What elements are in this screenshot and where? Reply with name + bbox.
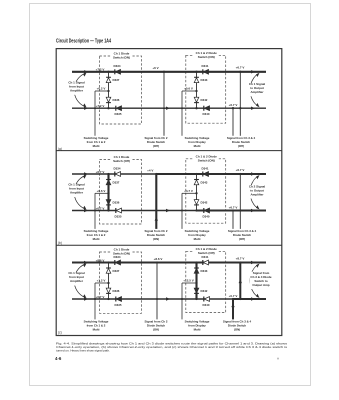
wire: clamp branch Ch 1 &amp; 2 switch (a) xyxy=(196,72,198,108)
svg-text:D336: D336 xyxy=(113,200,120,204)
wire: Ch 3 &amp; 4 diode switch feed (a) xyxy=(232,108,234,136)
diode D343 (a) xyxy=(194,77,208,82)
svg-text:+6 V: +6 V xyxy=(152,66,158,70)
Ch 1 diode switch dashed box (c) xyxy=(100,252,142,313)
diode D342 (c) xyxy=(194,288,208,293)
svg-text:Switch (ON): Switch (ON) xyxy=(198,55,215,59)
box title Ch 1 &amp; 2 Diode Switch (a) xyxy=(194,51,219,59)
label: Switching Voltage from Ch 1 &amp; 2 Multi (a) xyxy=(84,136,109,148)
svg-text:D335: D335 xyxy=(115,214,122,218)
label: Ch 1 Signal from Input Amplifier (a) xyxy=(65,80,88,94)
wire: clamp branch Ch 1 switch (a) xyxy=(108,72,110,108)
svg-text:+4 V: +4 V xyxy=(147,168,153,172)
output signal arc (c) xyxy=(250,264,259,299)
voltage label +0.7 V (b) xyxy=(96,206,105,210)
wire: Ch 3 &amp; 4 diode switch feed (c) xyxy=(232,299,234,319)
diode D341 (a) xyxy=(202,64,209,74)
wire: right bus tie (c) xyxy=(239,263,241,300)
label: Switching Voltage from Display Multi (c) xyxy=(185,320,210,332)
svg-text:D343: D343 xyxy=(201,78,208,82)
svg-text:(Off): (Off) xyxy=(238,144,244,148)
wire: bottom signal line (c) xyxy=(72,298,266,300)
svg-text:(b): (b) xyxy=(58,241,62,245)
input signal arc (a) xyxy=(74,73,86,108)
arrowhead up (b) xyxy=(155,217,158,221)
node: clamp midpoint 2 (b) xyxy=(195,192,197,194)
diode D335 (b) xyxy=(115,208,122,218)
svg-text:(ON): (ON) xyxy=(153,237,159,241)
diode D334 (a) xyxy=(114,64,121,74)
svg-text:D335: D335 xyxy=(115,303,122,307)
node: clamp midpoint 2 (c) xyxy=(195,282,197,284)
wire: right bus tie (a) xyxy=(239,72,241,136)
svg-text:+7.2 V: +7.2 V xyxy=(96,104,105,108)
header: Circuit Description — Type 1A4 xyxy=(56,39,111,45)
label: Switching Voltage from Ch 1 &amp; 2 Multi (c) xyxy=(84,320,109,332)
diode D337 (a) xyxy=(106,77,120,82)
arrowheads on signal lines (a) xyxy=(84,70,255,110)
svg-text:(ON): (ON) xyxy=(234,328,240,332)
diode D340 (b) xyxy=(203,208,210,218)
box title Ch 1 &amp; 2 Diode Switch (c) xyxy=(194,247,219,255)
wire: clamp branch Ch 1 &amp; 2 switch (c) xyxy=(195,263,197,300)
label: Signal from Ch 3 &amp; 4 Diode Switch (c) xyxy=(223,320,252,332)
svg-text:+6.7 V: +6.7 V xyxy=(229,205,238,209)
voltage label +0.6 V (a) xyxy=(184,87,193,91)
label: Switching Voltage from Ch 1 &amp; 2 Multi (b) xyxy=(84,229,109,241)
wire: display multi drive jog (b) xyxy=(182,193,197,229)
svg-text:+0.7 V: +0.7 V xyxy=(96,295,105,299)
output signal arc (a) xyxy=(250,73,259,107)
box title Ch 1 Diode Switch (c) xyxy=(111,248,133,256)
figure caption xyxy=(56,341,288,352)
diode D336 (c) xyxy=(106,288,120,293)
svg-text:D342: D342 xyxy=(201,289,208,293)
svg-text:+1.2 V: +1.2 V xyxy=(97,279,106,283)
junction dots (a) xyxy=(94,71,241,110)
wire: bottom signal line (a) xyxy=(72,107,266,109)
svg-text:D340: D340 xyxy=(203,303,210,307)
svg-text:(c): (c) xyxy=(58,331,62,335)
voltage label +1.2 V (c) xyxy=(97,279,106,283)
voltage label +12.5 V (c) xyxy=(183,279,193,283)
svg-text:D343: D343 xyxy=(201,180,208,184)
svg-text:D335: D335 xyxy=(115,112,122,116)
svg-text:+0.7 V: +0.7 V xyxy=(229,294,238,298)
svg-text:+8.6 V: +8.6 V xyxy=(154,257,163,261)
label: Signal from Ch 3 &amp; 4 Diode Switch (a) xyxy=(227,136,256,148)
svg-text:(Off): (Off) xyxy=(153,144,159,148)
diode D335 (c) xyxy=(115,297,122,307)
voltage label +6.7 V (a) xyxy=(236,66,245,70)
Ch 1 diode switch dashed box (b) xyxy=(100,160,142,225)
svg-text:Amplifier: Amplifier xyxy=(250,90,264,94)
wire: Ch 2 diode switch feed (c) xyxy=(156,263,158,320)
svg-text:(Off): (Off) xyxy=(239,237,245,241)
label: signal to output amplifier (c) xyxy=(250,271,272,289)
svg-text:(a): (a) xyxy=(58,147,62,151)
voltage label +8.7 V (c) xyxy=(236,256,245,260)
svg-text:D336: D336 xyxy=(113,289,120,293)
diode D337 (c) xyxy=(106,268,120,273)
svg-text:D343: D343 xyxy=(201,269,208,273)
svg-text:Multi: Multi xyxy=(93,328,100,332)
svg-text:D341: D341 xyxy=(202,64,209,68)
voltage label +4.7 V (b) xyxy=(184,189,193,193)
wire: Ch 3 &amp; 4 diode switch feed (b) xyxy=(232,211,234,229)
svg-text:4-6: 4-6 xyxy=(55,356,62,361)
svg-text:D337: D337 xyxy=(113,269,120,273)
input signal arc (c) xyxy=(74,263,86,298)
svg-text:Multi: Multi xyxy=(194,328,201,332)
voltage label +0.7 V (c) xyxy=(96,295,105,299)
svg-text:+6.7 V: +6.7 V xyxy=(236,66,245,70)
junction dots (b) xyxy=(94,173,241,212)
svg-text:+8.6 V: +8.6 V xyxy=(96,258,105,262)
voltage label +8.6 V (c) xyxy=(96,258,105,262)
label: Switching Voltage from Display Multi (b) xyxy=(185,229,210,241)
wire: Ch 1 &amp; 2 multi drive jog (b) xyxy=(95,193,109,229)
svg-text:Multi: Multi xyxy=(93,237,100,241)
svg-text:turned on. Heavy lines show si: turned on. Heavy lines show signal path. xyxy=(56,349,110,353)
wire: bottom signal line (b) xyxy=(72,210,266,212)
svg-text:+12.5 V: +12.5 V xyxy=(183,279,193,283)
svg-text:D336: D336 xyxy=(113,98,120,102)
diode D337 (b) xyxy=(106,180,120,185)
Ch 1 &amp; 2 diode switch dashed box (b) xyxy=(186,159,226,223)
wire: right bus tie (b) xyxy=(239,174,241,229)
svg-text:Amplifier: Amplifier xyxy=(70,88,84,92)
voltage label +0.7 V (c) xyxy=(229,294,238,298)
diode D340 (c) xyxy=(203,297,210,307)
svg-text:+0.6 V: +0.6 V xyxy=(97,189,106,193)
svg-text:D337: D337 xyxy=(113,180,120,184)
box title Ch 1 Diode Switch (a) xyxy=(111,52,133,60)
svg-text:+6.7 V: +6.7 V xyxy=(229,103,238,107)
wire: display multi drive jog (c) xyxy=(182,283,197,319)
svg-text:A: A xyxy=(277,356,279,360)
svg-text:Multi: Multi xyxy=(93,144,100,148)
svg-text:D341: D341 xyxy=(202,255,209,259)
svg-text:Circuit Description — Type 1A4: Circuit Description — Type 1A4 xyxy=(56,39,111,45)
label: Ch 1 Signal from Input Amplifier (b) xyxy=(65,183,88,197)
page edge xyxy=(30,4,311,386)
panel letter (c) xyxy=(58,331,62,335)
diode D341 (b) xyxy=(202,166,209,176)
wire: Ch 2 diode switch feed (a) xyxy=(163,72,165,136)
svg-text:Amplifier: Amplifier xyxy=(250,192,264,196)
voltage label +6.7 V (b) xyxy=(236,168,245,172)
node: clamp midpoint 1 (b) xyxy=(107,192,109,194)
figure border xyxy=(56,49,282,336)
svg-text:D340: D340 xyxy=(203,214,210,218)
panel divider 2 xyxy=(56,244,282,246)
svg-text:D340: D340 xyxy=(203,112,210,116)
wire: Ch 1 &amp; 2 multi drive jog (c) xyxy=(95,283,109,319)
wire: top signal line (c) xyxy=(72,261,266,263)
label: Switching Voltage from Display Multi (a) xyxy=(185,136,210,148)
diode D336 (b) xyxy=(106,200,120,205)
svg-text:D342: D342 xyxy=(201,98,208,102)
svg-text:Amplifier: Amplifier xyxy=(70,279,84,283)
svg-text:+0.2 V: +0.2 V xyxy=(97,87,106,91)
arrowhead up (c) xyxy=(231,304,234,308)
wire: clamp branch Ch 1 switch (c) xyxy=(108,263,110,300)
wire: top signal line (b) xyxy=(72,173,266,175)
revision mark xyxy=(277,356,279,360)
diode D342 (a) xyxy=(194,97,208,102)
svg-text:Output Amp: Output Amp xyxy=(252,283,269,287)
svg-text:+7.2 V: +7.2 V xyxy=(96,68,105,72)
svg-text:+0.7 V: +0.7 V xyxy=(96,206,105,210)
voltage label +6.7 V (b) xyxy=(229,205,238,209)
svg-text:D334: D334 xyxy=(114,64,121,68)
svg-text:Multi: Multi xyxy=(194,237,201,241)
node: clamp midpoint 2 (a) xyxy=(195,90,197,92)
panel letter (b) xyxy=(58,241,62,245)
node: clamp midpoint 1 (c) xyxy=(107,282,109,284)
svg-text:Switch (ON): Switch (ON) xyxy=(198,158,215,162)
voltage label +6.7 V (b) xyxy=(96,170,105,174)
svg-text:D334: D334 xyxy=(114,166,121,170)
voltage label +6.7 V (a) xyxy=(229,103,238,107)
voltage label +0.2 V (a) xyxy=(97,87,106,91)
wire: clamp branch Ch 1 switch (b) xyxy=(107,174,109,211)
svg-text:+4.7 V: +4.7 V xyxy=(184,189,193,193)
diode D336 (a) xyxy=(106,97,120,102)
svg-text:D334: D334 xyxy=(114,255,121,259)
svg-text:+0.6 V: +0.6 V xyxy=(184,87,193,91)
svg-text:D337: D337 xyxy=(113,78,120,82)
Ch 1 diode switch dashed box (a) xyxy=(100,56,142,124)
voltage label +6 V (a) xyxy=(152,66,158,70)
voltage label +7.2 V (a) xyxy=(96,68,105,72)
junction dots (c) xyxy=(94,261,241,300)
box title Ch 1 &amp; 2 Diode Switch (b) xyxy=(194,154,219,162)
diode D343 (b) xyxy=(194,180,208,185)
arrowhead up (c) xyxy=(239,280,242,284)
svg-text:(Off): (Off) xyxy=(153,328,159,332)
svg-text:Multi: Multi xyxy=(194,144,201,148)
diode D334 (b) xyxy=(114,166,121,176)
diode D334 (c) xyxy=(114,255,121,265)
svg-text:+8.7 V: +8.7 V xyxy=(236,256,245,260)
Ch 1 &amp; 2 diode switch dashed box (c) xyxy=(186,251,226,312)
diode D341 (c) xyxy=(202,255,209,265)
box title Ch 1 Diode Switch (b) xyxy=(111,155,133,163)
svg-text:+6.7 V: +6.7 V xyxy=(236,168,245,172)
wire: Ch 2 diode switch feed (b) xyxy=(155,174,157,229)
wire: clamp branch Ch 1 &amp; 2 switch (b) xyxy=(196,174,198,211)
diode D343 (c) xyxy=(194,268,208,273)
panel letter (a) xyxy=(58,147,62,151)
label: Ch 1 Signal from Input Amplifier (c) xyxy=(65,271,88,285)
svg-text:+6.7 V: +6.7 V xyxy=(96,170,105,174)
output signal arc (b) xyxy=(250,175,259,210)
svg-text:Switch (Off): Switch (Off) xyxy=(113,159,130,163)
Ch 1 &amp; 2 diode switch dashed box (a) xyxy=(186,55,226,123)
page number 4-6 xyxy=(55,356,62,361)
label: signal to output amplifier (a) xyxy=(246,82,268,96)
label: Signal from Ch 2 Diode Switch (a) xyxy=(145,136,168,148)
voltage label +0.6 V (b) xyxy=(97,189,106,193)
svg-text:D341: D341 xyxy=(202,166,209,170)
arrowheads on signal lines (b) xyxy=(84,172,255,212)
wire: display multi drive jog (a) xyxy=(182,91,197,136)
label: Signal from Ch 3 &amp; 4 Diode Switch (b) xyxy=(228,229,257,241)
diode D342 (b) xyxy=(194,200,208,205)
label: Signal from Ch 2 Diode Switch (b) xyxy=(145,229,168,241)
wire: top signal line (a) xyxy=(72,71,266,73)
node: clamp midpoint 1 (a) xyxy=(107,90,109,92)
voltage label +7.2 V (a) xyxy=(96,104,105,108)
wire: Ch 1 &amp; 2 multi drive jog (a) xyxy=(95,91,109,136)
voltage label +4 V (b) xyxy=(147,168,153,172)
panel divider 1 xyxy=(56,150,282,152)
svg-text:Amplifier: Amplifier xyxy=(70,191,84,195)
label: Signal from Ch 2 Diode Switch (c) xyxy=(145,320,168,332)
label: signal to output amplifier (b) xyxy=(246,184,268,198)
diode D335 (a) xyxy=(115,106,122,116)
svg-text:Switch (ON): Switch (ON) xyxy=(113,56,130,60)
input signal arc (b) xyxy=(74,175,86,210)
arrowheads on signal lines (c) xyxy=(84,261,255,301)
voltage label +8.6 V (c) xyxy=(154,257,163,261)
diode D340 (a) xyxy=(203,106,210,116)
svg-text:D342: D342 xyxy=(201,200,208,204)
